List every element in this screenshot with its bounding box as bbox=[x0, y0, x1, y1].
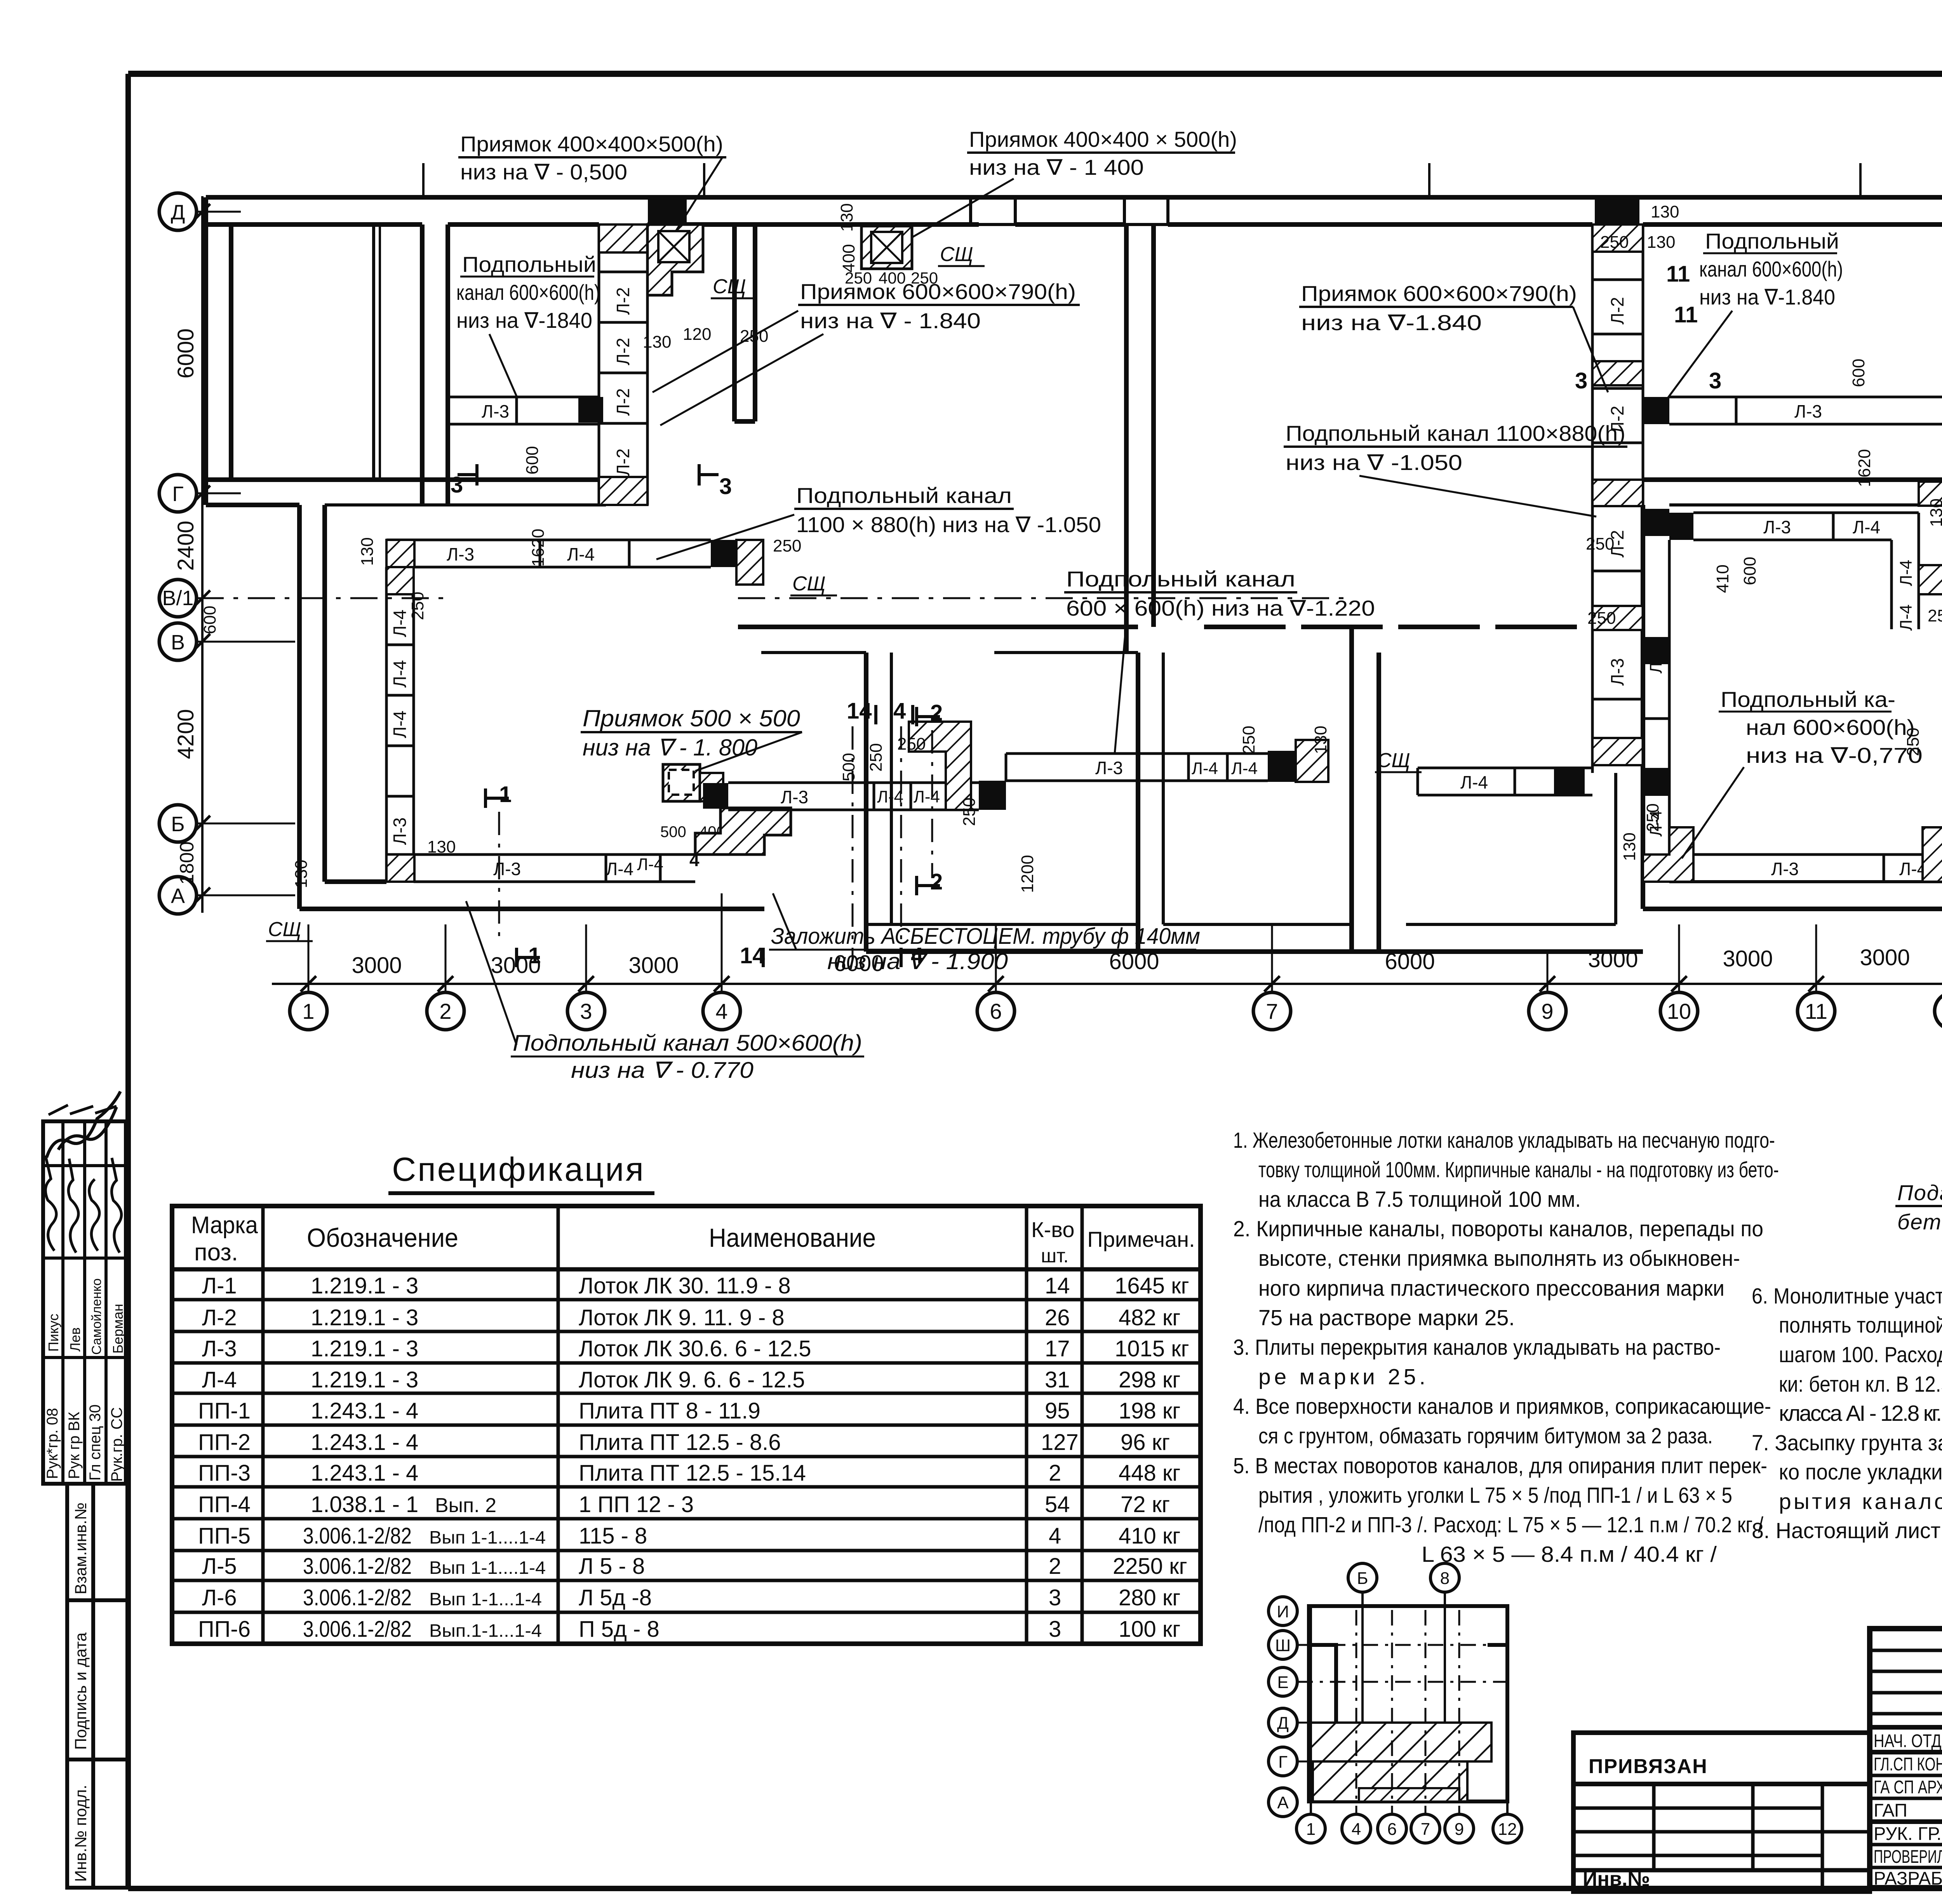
svg-text:2: 2 bbox=[930, 700, 943, 726]
svg-text:3: 3 bbox=[1049, 1585, 1061, 1610]
svg-text:3. Плиты перекрытия канал: 3. Плиты перекрытия каналов укладывать н… bbox=[1233, 1335, 1721, 1360]
svg-text:298 кг: 298 кг bbox=[1119, 1367, 1180, 1392]
svg-text:Самойленко: Самойленко bbox=[89, 1278, 104, 1355]
svg-text:1620: 1620 bbox=[529, 529, 548, 567]
svg-text:4: 4 bbox=[1049, 1523, 1061, 1549]
svg-text:Вып. 2: Вып. 2 bbox=[435, 1494, 496, 1517]
svg-text:130: 130 bbox=[837, 203, 856, 231]
svg-text:ПП-1: ПП-1 bbox=[198, 1398, 251, 1424]
hall wall stub below D bbox=[732, 225, 737, 421]
svg-text:600 × 600(h) низ на ∇-1.220: 600 × 600(h) низ на ∇-1.220 bbox=[1066, 596, 1375, 620]
svg-text:Вып 1-1....1-4: Вып 1-1....1-4 bbox=[429, 1527, 546, 1547]
svg-text:Л-3: Л-3 bbox=[1607, 658, 1627, 686]
axis marker stubs at top bbox=[423, 163, 1860, 196]
svg-text:198 кг: 198 кг bbox=[1119, 1398, 1180, 1424]
svg-text:низ на ∇-1.840: низ на ∇-1.840 bbox=[1301, 310, 1482, 335]
svg-text:ПП-2: ПП-2 bbox=[198, 1430, 251, 1455]
svg-text:Л-4: Л-4 bbox=[1192, 759, 1218, 778]
svg-text:ПП-4: ПП-4 bbox=[198, 1492, 251, 1517]
svg-text:482 кг: 482 кг bbox=[1119, 1305, 1180, 1330]
svg-text:Приямок 600×600×790(h): Приямок 600×600×790(h) bbox=[1301, 281, 1577, 306]
svg-text:шагом 100. Расход материал: шагом 100. Расход материалов на монолитн… bbox=[1779, 1342, 1942, 1367]
svg-text:Заложить АСБЕСТОЦЕМ. трубу ф: Заложить АСБЕСТОЦЕМ. трубу ф 140мм bbox=[771, 924, 1200, 949]
svg-text:СЩ: СЩ bbox=[268, 918, 301, 941]
svg-text:130: 130 bbox=[1651, 202, 1679, 221]
svg-text:Лев: Лев bbox=[67, 1327, 83, 1352]
svg-text:250: 250 bbox=[1239, 726, 1258, 754]
opening in D wall 2 bbox=[1124, 197, 1168, 225]
svg-text:Д: Д bbox=[1277, 1714, 1289, 1733]
svg-text:Л-4: Л-4 bbox=[202, 1367, 237, 1392]
svg-text:Пикус: Пикус bbox=[45, 1314, 61, 1352]
svg-text:3.006.1-2/82: 3.006.1-2/82 bbox=[303, 1585, 412, 1610]
svg-text:75 на растворе марки 25.: 75 на растворе марки 25. bbox=[1258, 1305, 1515, 1330]
svg-text:РАЗРАБ.: РАЗРАБ. bbox=[1874, 1868, 1942, 1888]
bottom dimension labels bbox=[352, 945, 1910, 978]
svg-text:Л-3: Л-3 bbox=[390, 817, 410, 845]
svg-text:товку толщиной 100мм. Кирпич: товку толщиной 100мм. Кирпичные каналы -… bbox=[1258, 1157, 1779, 1182]
middle bottom room walls bbox=[1379, 949, 1643, 954]
svg-text:Д: Д bbox=[171, 201, 185, 224]
svg-text:Л 5 - 8: Л 5 - 8 bbox=[579, 1554, 645, 1579]
svg-text:Л-1: Л-1 bbox=[202, 1273, 237, 1298]
svg-text:Л-4: Л-4 bbox=[1853, 517, 1880, 537]
rotated signature squiggles bbox=[45, 1091, 122, 1253]
svg-text:9: 9 bbox=[1455, 1820, 1464, 1839]
svg-text:ПП-6: ПП-6 bbox=[198, 1617, 251, 1642]
C11 vertical channel lower-right room bbox=[1643, 540, 1669, 855]
svg-text:6000: 6000 bbox=[173, 328, 198, 378]
callout bottom kanal 500x600 bbox=[466, 901, 864, 1083]
svg-text:РУК. ГР.: РУК. ГР. bbox=[1874, 1823, 1942, 1844]
svg-text:И: И bbox=[1277, 1602, 1289, 1621]
svg-text:Л-3: Л-3 bbox=[447, 544, 474, 564]
svg-text:Л-4: Л-4 bbox=[390, 609, 410, 637]
svg-text:1: 1 bbox=[528, 943, 541, 968]
svg-text:410 кг: 410 кг bbox=[1119, 1523, 1180, 1549]
svg-text:Подпольный канал 1100×880(h): Подпольный канал 1100×880(h) bbox=[1286, 421, 1625, 446]
left dimension line bbox=[201, 196, 204, 913]
room B label bbox=[456, 252, 600, 396]
svg-text:250: 250 bbox=[911, 269, 938, 287]
key plan inner grid lines bbox=[1297, 1610, 1507, 1815]
svg-text:26: 26 bbox=[1045, 1305, 1070, 1330]
svg-text:3: 3 bbox=[1575, 368, 1587, 393]
svg-text:Л-2: Л-2 bbox=[613, 287, 633, 315]
lower-right room left wall bbox=[1641, 505, 1645, 909]
svg-text:3: 3 bbox=[719, 474, 732, 499]
svg-text:11: 11 bbox=[1674, 302, 1698, 327]
callout podpolny kanal 600x600 -1.220 bbox=[1064, 567, 1375, 754]
svg-text:130: 130 bbox=[427, 837, 456, 856]
svg-text:250: 250 bbox=[1600, 233, 1629, 252]
svg-text:Л-3: Л-3 bbox=[1763, 517, 1791, 537]
svg-text:А: А bbox=[1277, 1793, 1289, 1812]
privyazan table bbox=[1573, 1733, 1870, 1892]
svg-text:4: 4 bbox=[1352, 1820, 1361, 1839]
svg-text:448 кг: 448 кг bbox=[1119, 1460, 1180, 1486]
svg-text:Б: Б bbox=[1357, 1569, 1368, 1588]
svg-text:130: 130 bbox=[1311, 726, 1330, 754]
svg-text:250: 250 bbox=[1587, 609, 1616, 628]
svg-text:7. Засыпку грунта за ст: 7. Засыпку грунта за стены каналов произ… bbox=[1752, 1431, 1942, 1455]
svg-text:7: 7 bbox=[1266, 999, 1278, 1023]
svg-text:Рук*гр. 08: Рук*гр. 08 bbox=[44, 1408, 61, 1479]
svg-text:ПП-5: ПП-5 bbox=[198, 1523, 251, 1549]
svg-text:Л-3: Л-3 bbox=[482, 401, 509, 421]
svg-text:Л-3: Л-3 bbox=[781, 787, 808, 807]
table header texts bbox=[191, 1212, 1195, 1267]
svg-text:11: 11 bbox=[1805, 999, 1827, 1023]
room A partition bbox=[372, 225, 375, 480]
svg-text:Л-4: Л-4 bbox=[606, 859, 633, 879]
key plan hatched zone lower bbox=[1313, 1761, 1467, 1801]
svg-text:СЩ: СЩ bbox=[713, 275, 746, 298]
svg-text:100 кг: 100 кг bbox=[1119, 1617, 1180, 1642]
C4 vertical channel left block bbox=[386, 567, 414, 882]
svg-text:17: 17 bbox=[1045, 1336, 1070, 1361]
svg-text:Гл спец 30: Гл спец 30 bbox=[87, 1405, 104, 1481]
svg-text:250: 250 bbox=[408, 592, 427, 620]
svg-text:Л-2: Л-2 bbox=[613, 388, 633, 416]
svg-text:250: 250 bbox=[740, 327, 768, 346]
svg-text:Приямок 400×400×500(h): Приямок 400×400×500(h) bbox=[460, 132, 723, 156]
svg-text:95: 95 bbox=[1045, 1398, 1070, 1424]
svg-text:низ на ∇-1.840: низ на ∇-1.840 bbox=[1699, 285, 1835, 309]
central room bottom wall bbox=[866, 949, 1379, 954]
upper signature block bbox=[43, 1121, 126, 1484]
svg-text:ко после укладки и за: ко после укладки и замоноличивания плит … bbox=[1779, 1460, 1942, 1485]
svg-text:130: 130 bbox=[292, 860, 311, 888]
svg-text:низ на ∇ - 1.840: низ на ∇ - 1.840 bbox=[800, 308, 981, 333]
small dimension labels bbox=[427, 202, 1942, 856]
key plan outline bbox=[1309, 1606, 1507, 1801]
svg-text:130: 130 bbox=[643, 332, 671, 352]
title block grid bbox=[1870, 1629, 1942, 1888]
svg-text:П 5д - 8: П 5д - 8 bbox=[579, 1617, 660, 1642]
C3 horizontal channel below G bbox=[386, 540, 711, 567]
svg-text:500: 500 bbox=[839, 753, 858, 781]
callout podpolny kanal 1100x880 right bbox=[1284, 421, 1627, 517]
svg-text:Л-5: Л-5 bbox=[202, 1554, 237, 1579]
bottom axis circles bbox=[290, 992, 1942, 1030]
svg-text:10: 10 bbox=[1667, 999, 1691, 1023]
svg-text:Марка: Марка bbox=[191, 1212, 258, 1239]
table rows bbox=[198, 1273, 1189, 1642]
svg-text:600: 600 bbox=[1849, 359, 1868, 387]
wall between right rooms bbox=[1643, 477, 1942, 482]
left axis stubs bbox=[197, 212, 295, 895]
svg-text:Инв.№ подл.: Инв.№ подл. bbox=[71, 1785, 90, 1882]
svg-text:130: 130 bbox=[358, 537, 377, 566]
svg-text:120: 120 bbox=[683, 325, 711, 344]
svg-text:1.038.1 - 1: 1.038.1 - 1 bbox=[311, 1492, 418, 1517]
svg-text:/под ПП-2 и ПП-3 /. Расх: /под ПП-2 и ПП-3 /. Расход: L 75 × 5 — 1… bbox=[1258, 1512, 1763, 1537]
svg-text:3000: 3000 bbox=[352, 953, 402, 978]
svg-text:3.006.1-2/82: 3.006.1-2/82 bbox=[303, 1554, 412, 1579]
svg-text:Подготовка из: Подготовка из bbox=[1897, 1180, 1942, 1205]
svg-text:Е: Е bbox=[1277, 1673, 1288, 1692]
svg-text:Л-4: Л-4 bbox=[567, 544, 595, 564]
svg-text:250: 250 bbox=[1643, 803, 1662, 832]
svg-text:низ на ∇ -1.050: низ на ∇ -1.050 bbox=[1286, 450, 1462, 475]
svg-text:Инв.№: Инв.№ bbox=[1583, 1868, 1650, 1890]
svg-text:1100 × 880(h) низ на ∇ -1.05: 1100 × 880(h) низ на ∇ -1.050 bbox=[796, 512, 1101, 537]
svg-text:1: 1 bbox=[302, 999, 314, 1023]
svg-text:Рук.гр. СС: Рук.гр. СС bbox=[108, 1407, 125, 1482]
section cut lines bbox=[499, 726, 932, 959]
svg-text:В: В bbox=[171, 631, 185, 654]
svg-text:4: 4 bbox=[911, 943, 923, 968]
bottom axis stub lines up to building bbox=[308, 893, 1942, 992]
svg-text:1200: 1200 bbox=[1018, 855, 1037, 893]
room A right wall bbox=[420, 225, 425, 505]
svg-text:СЩ: СЩ bbox=[1377, 749, 1410, 772]
key plan axis circles left bbox=[1269, 1597, 1297, 1817]
pocket pryamok 400x400 top-left bbox=[647, 225, 703, 295]
svg-text:2. Кирпичные каналы, повор: 2. Кирпичные каналы, повороты каналов, п… bbox=[1233, 1217, 1763, 1241]
svg-text:Л-4: Л-4 bbox=[637, 855, 663, 874]
bottom dimension line bbox=[272, 983, 1942, 985]
svg-text:3000: 3000 bbox=[1860, 945, 1910, 970]
svg-text:Л-3: Л-3 bbox=[1771, 859, 1799, 879]
svg-text:Лоток ЛК 9. 11. 9 - 8: Лоток ЛК 9. 11. 9 - 8 bbox=[579, 1305, 785, 1330]
svg-text:250: 250 bbox=[773, 536, 801, 555]
svg-text:высоте, стенки приямка вы: высоте, стенки приямка выполнять из обык… bbox=[1258, 1246, 1740, 1271]
svg-text:Л-4: Л-4 bbox=[914, 787, 940, 806]
svg-text:1645 кг: 1645 кг bbox=[1115, 1273, 1189, 1298]
black joint on D wall left bbox=[648, 197, 687, 225]
svg-text:А: А bbox=[171, 884, 185, 908]
svg-text:6. Монолитные участки пере: 6. Монолитные участки перекрытия над кан… bbox=[1752, 1284, 1942, 1309]
svg-text:14: 14 bbox=[740, 943, 765, 968]
svg-text:полнять толщиной 80 мм, а: полнять толщиной 80 мм, армировать стерж… bbox=[1779, 1313, 1942, 1338]
callout podpolny kanal 1100x880 left bbox=[656, 483, 1101, 559]
svg-text:L 63 × 5 — 8.4 п.м / 40.4: L 63 × 5 — 8.4 п.м / 40.4 кг / bbox=[1422, 1542, 1717, 1567]
svg-text:Г: Г bbox=[172, 482, 183, 506]
C1 vertical channel L-2 left block bbox=[599, 225, 647, 505]
svg-text:Подпольный: Подпольный bbox=[462, 252, 596, 277]
svg-text:1.219.1 - 3: 1.219.1 - 3 bbox=[311, 1367, 418, 1392]
key plan circles top bbox=[1348, 1563, 1459, 1592]
svg-text:7: 7 bbox=[1421, 1820, 1430, 1839]
svg-text:130: 130 bbox=[1647, 233, 1675, 252]
mid horizontal wall bbox=[738, 625, 1138, 629]
svg-text:Спецификация: Спецификация bbox=[392, 1151, 645, 1188]
svg-text:Приямок 400×400 × 500(h): Приямок 400×400 × 500(h) bbox=[969, 127, 1237, 151]
svg-text:500: 500 bbox=[660, 823, 686, 841]
svg-text:низ на ∇ - 1. 800: низ на ∇ - 1. 800 bbox=[583, 734, 757, 761]
svg-text:бетона кл. В7.5: бетона кл. В7.5 bbox=[1897, 1210, 1942, 1234]
svg-text:рытия , уложить уголки: рытия , уложить уголки L 75 × 5 /под ПП-… bbox=[1258, 1483, 1732, 1508]
svg-text:Берман: Берман bbox=[110, 1304, 126, 1354]
wall along axis D top line bbox=[206, 195, 1942, 200]
svg-text:96 кг: 96 кг bbox=[1121, 1430, 1170, 1455]
svg-text:72 кг: 72 кг bbox=[1121, 1492, 1170, 1517]
svg-text:Л-4: Л-4 bbox=[390, 660, 410, 687]
svg-text:3: 3 bbox=[580, 999, 592, 1023]
svg-text:поз.: поз. bbox=[194, 1239, 238, 1266]
svg-text:нал 600×600(h): нал 600×600(h) bbox=[1746, 715, 1915, 740]
svg-text:14: 14 bbox=[1045, 1273, 1070, 1298]
svg-text:Г: Г bbox=[1278, 1753, 1288, 1772]
lower-right room bottom wall bbox=[1643, 907, 1942, 911]
svg-text:3.006.1-2/82: 3.006.1-2/82 bbox=[303, 1617, 412, 1642]
svg-text:Л-4: Л-4 bbox=[390, 710, 410, 738]
svg-text:Подпольный канал 500×600(h): Подпольный канал 500×600(h) bbox=[513, 1030, 862, 1056]
callout pryamok 500x500 bbox=[581, 705, 802, 771]
svg-text:Плита ПТ 8 - 11.9: Плита ПТ 8 - 11.9 bbox=[579, 1398, 760, 1424]
svg-text:1: 1 bbox=[1306, 1820, 1316, 1839]
svg-text:2: 2 bbox=[930, 869, 943, 895]
svg-text:низ на ∇ - 0.770: низ на ∇ - 0.770 bbox=[571, 1058, 753, 1083]
callout pryamok 400x400 -0.500 bbox=[458, 132, 726, 231]
svg-text:Примечан.: Примечан. bbox=[1087, 1227, 1195, 1251]
svg-text:1.219.1 - 3: 1.219.1 - 3 bbox=[311, 1305, 418, 1330]
svg-text:Б: Б bbox=[171, 813, 184, 836]
svg-text:1015 кг: 1015 кг bbox=[1115, 1336, 1189, 1361]
callout kanal 600x600 -0.770 right room bbox=[1682, 687, 1923, 858]
vertical wall left of central room bbox=[1136, 653, 1140, 952]
svg-text:1.243.1 - 4: 1.243.1 - 4 bbox=[311, 1430, 418, 1455]
svg-text:Подпольный канал: Подпольный канал bbox=[1066, 567, 1295, 591]
svg-text:В/1: В/1 bbox=[162, 587, 193, 610]
svg-text:6: 6 bbox=[990, 999, 1002, 1023]
svg-text:1.243.1 - 4: 1.243.1 - 4 bbox=[311, 1398, 418, 1424]
svg-text:Вып 1-1....1-4: Вып 1-1....1-4 bbox=[429, 1558, 546, 1578]
lower stamp boxes bbox=[67, 1484, 127, 1888]
C9 top channel lower-right room bbox=[1693, 513, 1919, 540]
svg-text:Л-3: Л-3 bbox=[1095, 758, 1123, 778]
svg-text:2400: 2400 bbox=[173, 520, 198, 571]
svg-text:ного кирпича пластического: ного кирпича пластического прессования м… bbox=[1258, 1276, 1724, 1301]
black joint on D wall right bbox=[1595, 197, 1639, 225]
svg-text:Ш: Ш bbox=[1275, 1636, 1291, 1655]
svg-text:1.243.1 - 4: 1.243.1 - 4 bbox=[311, 1460, 418, 1486]
svg-text:Л-4: Л-4 bbox=[1897, 604, 1916, 631]
svg-text:250: 250 bbox=[1928, 606, 1942, 625]
C2 horizontal channel room B bbox=[448, 397, 599, 424]
svg-text:Л-2: Л-2 bbox=[613, 448, 633, 476]
svg-text:600: 600 bbox=[1740, 557, 1759, 585]
node black square C2-C1 junction bbox=[578, 397, 603, 423]
section marks bbox=[451, 261, 1721, 968]
svg-text:Лоток ЛК 30. 11.9 - 8: Лоток ЛК 30. 11.9 - 8 bbox=[579, 1273, 791, 1298]
pit pryamok 500x500 bbox=[663, 764, 700, 801]
svg-text:низ на ∇-1840: низ на ∇-1840 bbox=[456, 308, 592, 332]
svg-text:4. Все поверхности канало: 4. Все поверхности каналов и приямков, с… bbox=[1233, 1394, 1771, 1419]
svg-text:280 кг: 280 кг bbox=[1119, 1585, 1180, 1610]
S marks bbox=[268, 243, 1410, 941]
svg-text:Рук гр ВК: Рук гр ВК bbox=[66, 1411, 83, 1479]
hatched corner pocket before axis 6 bbox=[909, 722, 971, 810]
svg-text:3: 3 bbox=[1709, 368, 1721, 393]
svg-text:250: 250 bbox=[845, 269, 872, 287]
callout pryamok 600x600x790 left bbox=[653, 279, 1080, 425]
callout pryamok 600x600x790 right bbox=[1299, 281, 1608, 392]
channel B central long run bbox=[1006, 754, 1268, 781]
C12 bottom channel lower-right room bbox=[1693, 855, 1942, 882]
svg-text:низ на ∇-0,770: низ на ∇-0,770 bbox=[1746, 743, 1923, 768]
svg-text:ГЛ.СП КОН: ГЛ.СП КОН bbox=[1874, 1754, 1942, 1774]
mid vertical wall at axis 6 left bbox=[1124, 225, 1129, 653]
bottom wall of left block bbox=[299, 907, 764, 911]
black squares along C7 bbox=[1643, 397, 1669, 424]
svg-text:1620: 1620 bbox=[1855, 449, 1874, 487]
svg-text:12: 12 bbox=[1498, 1820, 1517, 1839]
svg-text:Наименование: Наименование bbox=[709, 1223, 876, 1253]
svg-text:600: 600 bbox=[523, 446, 542, 474]
left exterior wall upper bbox=[204, 197, 208, 505]
svg-text:СЩ: СЩ bbox=[940, 243, 973, 266]
svg-text:250: 250 bbox=[1904, 727, 1923, 756]
svg-text:ки: бетон кл. В 12.5 - 0,9: ки: бетон кл. В 12.5 - 0,91 м³, арматура… bbox=[1779, 1372, 1942, 1397]
svg-text:Л-2: Л-2 bbox=[1607, 297, 1627, 324]
svg-text:130: 130 bbox=[1927, 498, 1942, 527]
C7 vertical channel L-2 right block bbox=[1592, 225, 1643, 773]
svg-text:Подпись и дата: Подпись и дата bbox=[71, 1632, 90, 1750]
svg-text:600: 600 bbox=[200, 606, 219, 634]
svg-text:2: 2 bbox=[439, 999, 451, 1023]
svg-text:ПРИВЯЗАН: ПРИВЯЗАН bbox=[1589, 1755, 1708, 1778]
svg-text:низ на ∇ - 1 400: низ на ∇ - 1 400 bbox=[969, 155, 1144, 179]
wall along axis G bbox=[206, 477, 606, 482]
svg-text:250: 250 bbox=[960, 797, 979, 826]
svg-text:Лоток ЛК 9. 6. 6 - 12.5: Лоток ЛК 9. 6. 6 - 12.5 bbox=[579, 1367, 805, 1392]
callout asbestos pipe bbox=[769, 893, 1200, 974]
C5 bottom channel left block bbox=[386, 855, 695, 882]
svg-text:Л-3: Л-3 bbox=[493, 859, 521, 879]
svg-text:1.219.1 - 3: 1.219.1 - 3 bbox=[311, 1336, 418, 1361]
svg-text:3.006.1-2/82: 3.006.1-2/82 bbox=[303, 1523, 412, 1549]
svg-text:Л 5д -8: Л 5д -8 bbox=[579, 1585, 652, 1610]
svg-text:31: 31 bbox=[1045, 1367, 1070, 1392]
svg-text:410: 410 bbox=[1713, 564, 1732, 593]
svg-text:Л-2: Л-2 bbox=[613, 338, 633, 365]
svg-text:Вып.1-1...1-4: Вып.1-1...1-4 bbox=[429, 1620, 542, 1641]
key plan hatched zone upper bbox=[1311, 1723, 1491, 1761]
specification table grid bbox=[172, 1206, 1201, 1644]
right mid vertical wall at axis 7 bbox=[1349, 627, 1354, 952]
svg-text:127: 127 bbox=[1041, 1430, 1079, 1455]
svg-text:Подпольный канал: Подпольный канал bbox=[796, 483, 1012, 508]
key plan axis circles bottom bbox=[1296, 1814, 1522, 1843]
svg-text:Л-6: Л-6 bbox=[202, 1585, 237, 1610]
svg-text:250: 250 bbox=[1586, 534, 1614, 553]
svg-text:2250 кг: 2250 кг bbox=[1113, 1554, 1187, 1579]
svg-text:4: 4 bbox=[893, 698, 906, 724]
svg-text:СЩ: СЩ bbox=[792, 573, 826, 595]
svg-text:8: 8 bbox=[1440, 1569, 1450, 1588]
svg-text:Л-4: Л-4 bbox=[1897, 560, 1916, 586]
svg-text:400: 400 bbox=[839, 244, 858, 272]
svg-text:1 ПП 12 - 3: 1 ПП 12 - 3 bbox=[579, 1492, 694, 1517]
svg-text:Л-4: Л-4 bbox=[1646, 647, 1665, 674]
svg-text:канал 600×600(h): канал 600×600(h) bbox=[1699, 257, 1843, 281]
callout pryamok 400x400 -1.400 bbox=[913, 127, 1237, 237]
svg-text:14: 14 bbox=[847, 698, 872, 724]
channel A from pit to axis 6 bbox=[728, 783, 979, 810]
svg-text:ПРОВЕРИЛ: ПРОВЕРИЛ bbox=[1874, 1846, 1942, 1867]
svg-text:Лоток ЛК 30.6. 6 - 12.5: Лоток ЛК 30.6. 6 - 12.5 bbox=[579, 1336, 811, 1361]
svg-text:6: 6 bbox=[1387, 1820, 1397, 1839]
svg-text:ПП-3: ПП-3 bbox=[198, 1460, 251, 1486]
svg-text:Вып 1-1...1-4: Вып 1-1...1-4 bbox=[429, 1589, 542, 1609]
svg-text:шт.: шт. bbox=[1041, 1245, 1068, 1267]
svg-text:Л-4: Л-4 bbox=[1460, 772, 1488, 792]
svg-text:3000: 3000 bbox=[1723, 946, 1773, 971]
pocket pryamok 400x400 no2 on D wall bbox=[861, 226, 912, 269]
